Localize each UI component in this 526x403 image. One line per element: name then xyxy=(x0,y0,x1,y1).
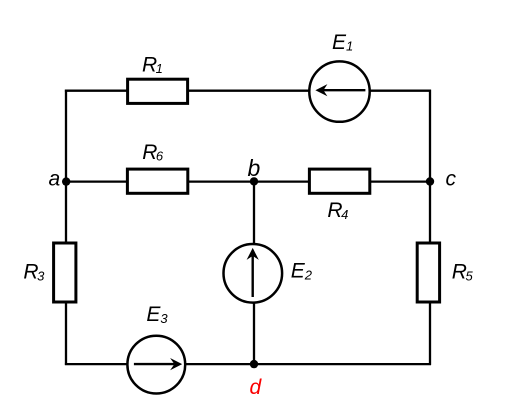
svg-text:b: b xyxy=(248,155,261,181)
svg-text:d: d xyxy=(250,376,263,399)
svg-text:c: c xyxy=(446,168,457,191)
svg-text:a: a xyxy=(49,168,61,191)
